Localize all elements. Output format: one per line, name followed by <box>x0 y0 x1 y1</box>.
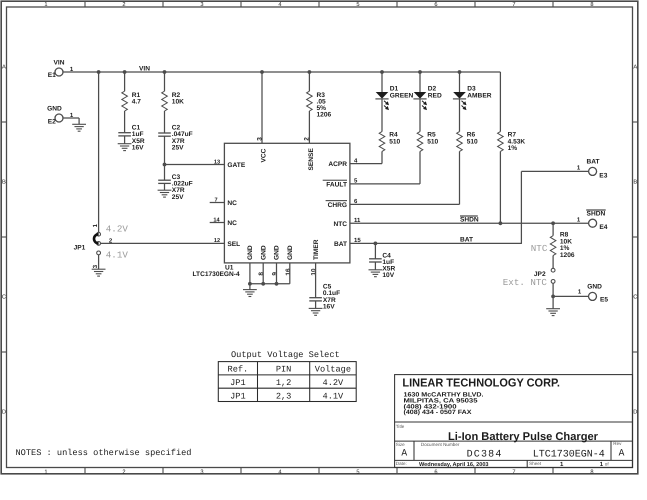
svg-text:12: 12 <box>214 238 220 244</box>
ground at C1 <box>118 143 132 145</box>
svg-text:Size: Size <box>396 442 405 447</box>
svg-text:GND: GND <box>287 245 294 260</box>
junction R8/SHDN <box>551 221 555 225</box>
svg-text:6: 6 <box>434 2 437 8</box>
junction GATE node <box>163 163 167 167</box>
jumper JP1 <box>74 223 113 268</box>
ground at JP2 <box>552 296 554 308</box>
resistor R5 <box>417 132 438 152</box>
svg-text:RED: RED <box>428 92 442 99</box>
junction E5/ground <box>551 295 555 299</box>
svg-text:D: D <box>633 409 637 415</box>
wire D2 to R5 <box>419 99 421 132</box>
table text <box>228 365 351 402</box>
wire JP1 pin2 to SEL <box>101 242 225 244</box>
svg-text:Title: Title <box>396 424 405 429</box>
svg-text:GND: GND <box>260 245 267 260</box>
LED D2 RED <box>413 86 442 111</box>
svg-text:NC: NC <box>227 200 237 207</box>
terminal E2 GND <box>47 106 74 126</box>
svg-text:510: 510 <box>389 139 400 146</box>
svg-text:NC: NC <box>227 220 237 227</box>
svg-text:VIN: VIN <box>54 60 65 67</box>
svg-text:JP1: JP1 <box>74 244 86 251</box>
U1 pin names left <box>227 162 245 248</box>
ground at C4 <box>369 269 383 271</box>
svg-text:E1: E1 <box>48 72 56 79</box>
svg-text:CHRG: CHRG <box>328 202 347 209</box>
svg-text:6: 6 <box>434 469 437 475</box>
wire rail to D2 <box>419 72 421 92</box>
svg-text:C: C <box>633 294 637 300</box>
resistor R7 <box>498 132 526 153</box>
svg-text:3: 3 <box>200 2 203 8</box>
svg-text:VIN: VIN <box>139 66 150 73</box>
svg-text:Date:: Date: <box>396 461 407 466</box>
svg-text:VCC: VCC <box>261 148 268 162</box>
resistor R8 <box>550 223 575 258</box>
wire GND bus to ground <box>249 284 251 290</box>
svg-text:2,3: 2,3 <box>276 391 292 401</box>
junction R7/SHDN <box>499 221 503 225</box>
resistor R6 <box>457 132 478 152</box>
svg-text:NOTES : unless otherwise speci: NOTES : unless otherwise specified <box>16 448 192 458</box>
wire GATE node to pin 13 <box>165 164 225 166</box>
resistor R4 <box>379 132 400 152</box>
junction dots on VIN rail <box>97 70 462 74</box>
wire JP1 pin3 down <box>98 255 100 269</box>
title block address <box>404 391 484 416</box>
svg-text:9: 9 <box>272 272 279 276</box>
svg-text:Voltage: Voltage <box>315 365 351 375</box>
wire BAT up to E3 <box>520 171 522 243</box>
svg-text:LINEAR TECHNOLOGY CORP.: LINEAR TECHNOLOGY CORP. <box>402 377 560 390</box>
svg-text:SEL: SEL <box>227 241 240 248</box>
svg-text:A: A <box>633 64 637 70</box>
svg-text:BAT: BAT <box>334 241 347 248</box>
svg-text:Wednesday, April 16, 2003: Wednesday, April 16, 2003 <box>419 461 489 468</box>
wire R8 to JP2 <box>552 256 554 269</box>
svg-text:1,2: 1,2 <box>276 378 292 388</box>
terminal E4 SHDN <box>577 210 608 231</box>
wire rail to D1 <box>381 72 383 92</box>
junction dots GND bus <box>248 282 278 286</box>
svg-text:E4: E4 <box>599 224 607 231</box>
svg-text:4: 4 <box>278 2 281 8</box>
svg-text:8: 8 <box>590 2 593 8</box>
node SHDN net label <box>460 216 479 223</box>
svg-text:10: 10 <box>310 268 317 276</box>
title block date row <box>396 461 610 468</box>
junction C4/BAT <box>374 242 378 246</box>
svg-text:10K: 10K <box>172 98 184 105</box>
svg-text:16: 16 <box>285 268 292 276</box>
svg-text:Ref.: Ref. <box>228 365 249 375</box>
svg-text:1: 1 <box>44 2 47 8</box>
svg-text:E5: E5 <box>600 297 608 304</box>
svg-text:4.1V: 4.1V <box>106 250 129 261</box>
svg-text:DC384: DC384 <box>467 449 503 460</box>
svg-text:2: 2 <box>304 137 311 141</box>
table Output Voltage Select grid <box>218 362 356 402</box>
wire rail to VCC pin 3 <box>261 72 263 143</box>
svg-text:E2: E2 <box>48 118 56 125</box>
svg-text:8: 8 <box>590 469 593 475</box>
border row letters <box>2 64 638 415</box>
svg-text:25V: 25V <box>172 194 184 201</box>
svg-text:A: A <box>619 447 625 458</box>
svg-text:B: B <box>2 179 6 185</box>
svg-text:5: 5 <box>356 2 359 8</box>
wire JP2 to ground node <box>552 283 554 296</box>
capacitor C2 <box>158 125 192 152</box>
svg-text:LTC1730EGN-4: LTC1730EGN-4 <box>533 449 605 460</box>
wire R7 to SHDN net <box>499 151 501 223</box>
svg-text:SENSE: SENSE <box>308 148 315 171</box>
svg-text:FAULT: FAULT <box>326 181 347 188</box>
svg-text:GATE: GATE <box>227 162 245 169</box>
resistor R3 <box>307 72 332 119</box>
svg-text:4.1V: 4.1V <box>323 391 345 401</box>
svg-text:NTC: NTC <box>333 221 347 228</box>
terminal E3 BAT <box>577 159 608 180</box>
wire R5 to FAULT pin 5 <box>419 151 421 184</box>
wire C5 to ground <box>315 301 317 309</box>
svg-text:LTC1730EGN-4: LTC1730EGN-4 <box>193 271 240 278</box>
svg-text:PIN: PIN <box>276 365 292 375</box>
svg-text:4: 4 <box>278 469 281 475</box>
resistor R1 <box>122 72 141 132</box>
title block document number <box>421 442 605 461</box>
op-amp U1 LTC1730EGN-4 body <box>224 143 350 263</box>
wire to E5 <box>553 295 588 297</box>
ground at E2 <box>72 123 86 125</box>
svg-text:Ext. NTC: Ext. NTC <box>503 277 548 288</box>
svg-text:2: 2 <box>122 2 125 8</box>
svg-text:JP1: JP1 <box>230 391 246 401</box>
svg-text:1%: 1% <box>508 145 518 152</box>
svg-text:GND: GND <box>47 106 62 113</box>
wire NC pin 7 stub <box>210 202 225 204</box>
svg-text:4.7: 4.7 <box>132 98 141 105</box>
title block frame <box>395 375 633 468</box>
wire R4 to ACPR pin 4 <box>381 151 383 163</box>
ground at C5 <box>309 307 323 309</box>
svg-text:(408) 434 - 0507 FAX: (408) 434 - 0507 FAX <box>404 409 473 416</box>
svg-text:3: 3 <box>257 137 264 141</box>
svg-text:4.2V: 4.2V <box>106 223 129 234</box>
wire D3 to R6 <box>459 99 461 132</box>
capacitor C1 <box>118 125 145 152</box>
svg-text:GREEN: GREEN <box>390 92 414 99</box>
resistor R2 <box>162 72 184 133</box>
svg-text:1206: 1206 <box>560 252 575 259</box>
svg-text:Sheet: Sheet <box>529 461 542 466</box>
svg-text:510: 510 <box>467 139 478 146</box>
LED D1 GREEN <box>375 86 413 111</box>
capacitor C5 <box>309 284 340 311</box>
wire TIMER pin 10 to C5 <box>315 263 317 298</box>
svg-text:5: 5 <box>356 469 359 475</box>
svg-text:3: 3 <box>200 469 203 475</box>
svg-text:4.2V: 4.2V <box>323 378 345 388</box>
U1 pin names top <box>261 148 315 171</box>
svg-text:GND: GND <box>247 245 254 260</box>
wire VIN rail <box>63 71 501 73</box>
svg-text:7: 7 <box>512 469 515 475</box>
capacitor C4 <box>369 243 395 279</box>
svg-text:1: 1 <box>44 469 47 475</box>
svg-text:Document Number: Document Number <box>421 442 460 447</box>
svg-text:ACPR: ACPR <box>328 161 347 168</box>
wire R6 to CHRG pin 6 <box>459 151 461 204</box>
terminal E5 GND <box>578 283 609 303</box>
svg-text:10V: 10V <box>382 272 394 279</box>
ground under U1 <box>243 289 257 291</box>
title block size cell <box>396 442 408 459</box>
wire U1 GND pin stubs <box>250 263 290 284</box>
svg-text:E3: E3 <box>599 172 607 179</box>
svg-text:SHDN: SHDN <box>460 216 479 223</box>
U1 pin names right <box>323 161 348 248</box>
svg-text:AMBER: AMBER <box>467 92 491 99</box>
wire NTC pin 11 SHDN net <box>350 222 589 224</box>
ground at C3 <box>158 189 172 191</box>
svg-text:JP1: JP1 <box>230 378 246 388</box>
wire C2 to GATE node <box>164 136 166 164</box>
svg-text:Output Voltage Select: Output Voltage Select <box>231 350 340 360</box>
wire rail corner to R7 <box>499 72 501 132</box>
capacitor C3 <box>158 165 192 201</box>
svg-text:A: A <box>2 64 6 70</box>
U1 reference label <box>193 264 240 278</box>
svg-text:A: A <box>401 447 407 458</box>
svg-text:16V: 16V <box>132 144 144 151</box>
svg-text:BAT: BAT <box>460 237 473 244</box>
wire C4 to ground <box>374 262 376 270</box>
svg-text:C: C <box>2 294 6 300</box>
wire BAT pin 15 net <box>350 242 522 244</box>
ground at JP1 <box>92 268 106 270</box>
svg-text:7: 7 <box>512 2 515 8</box>
svg-text:NTC: NTC <box>531 243 548 254</box>
svg-text:8: 8 <box>258 272 265 276</box>
svg-text:BAT: BAT <box>586 159 599 166</box>
svg-text:13: 13 <box>214 159 220 165</box>
svg-text:25V: 25V <box>172 144 184 151</box>
jumper JP2 <box>534 268 555 283</box>
wire R3 to SENSE pin 2 <box>308 111 310 143</box>
LED D3 AMBER <box>453 86 492 111</box>
U1 pin numbers <box>213 137 361 276</box>
U1 pin names bottom <box>247 239 320 260</box>
title block rev cell <box>613 441 624 458</box>
svg-text:TIMER: TIMER <box>313 239 320 260</box>
wire rail to D3 <box>459 72 461 92</box>
wire C3 to ground <box>164 183 166 190</box>
wire NC pin 14 stub <box>210 222 225 224</box>
wire rail to JP1 <box>98 72 100 232</box>
svg-text:SHDN: SHDN <box>587 211 606 218</box>
svg-text:GND: GND <box>587 283 602 290</box>
svg-text:2: 2 <box>122 469 125 475</box>
svg-text:GND: GND <box>274 245 281 260</box>
svg-text:1206: 1206 <box>317 112 332 119</box>
wire C1 to ground <box>124 136 126 144</box>
svg-text:Li-Ion Battery Pulse Charger: Li-Ion Battery Pulse Charger <box>448 431 599 443</box>
svg-text:16V: 16V <box>323 303 335 310</box>
terminal E1 VIN <box>48 60 74 80</box>
svg-text:Rev: Rev <box>613 441 622 446</box>
svg-text:B: B <box>633 179 637 185</box>
wire D1 to R4 <box>381 99 383 132</box>
svg-text:510: 510 <box>427 139 438 146</box>
svg-text:D: D <box>2 409 6 415</box>
wire E2 to ground <box>63 117 79 119</box>
